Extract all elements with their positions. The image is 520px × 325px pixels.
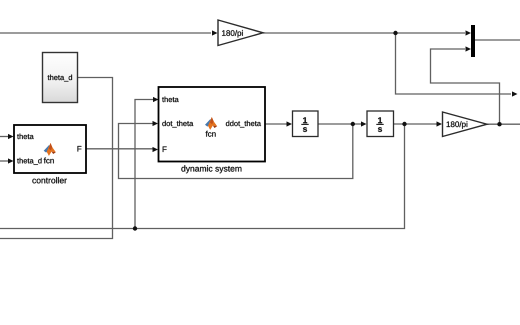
pin label theta	[17, 134, 34, 140]
arrow into dynamic system F	[153, 147, 159, 152]
wire	[0, 33, 520, 239]
arrow into bottom gain	[437, 121, 443, 126]
gain G2 180/pi bottom	[443, 112, 488, 137]
wire W1 input to top gain	[0, 32, 211, 34]
label fcn	[44, 158, 54, 164]
pin label dot_theta	[162, 121, 193, 128]
label fcn	[206, 131, 216, 137]
mux M1	[471, 25, 475, 57]
arrow into mux in2	[466, 46, 472, 51]
pin label theta	[162, 97, 179, 103]
arrow into dynamic system theta	[153, 97, 159, 102]
controller block U1	[14, 125, 86, 173]
wire W11 controller theta input	[0, 136, 8, 138]
arrow into controller theta_d	[8, 158, 14, 163]
node junction dots	[133, 31, 502, 231]
integrator U3 1/s	[293, 111, 319, 137]
arrow into dynamic system dot_theta	[153, 121, 159, 126]
dynamic system block U2	[159, 87, 266, 162]
wire W4 mux output	[475, 39, 520, 41]
label controller	[32, 177, 66, 183]
fraction bar	[301, 123, 308, 125]
node J2 integrator1 output	[351, 122, 355, 126]
wire W8 dynamic system out to integrator1	[265, 123, 287, 125]
arrow at right edge y94	[512, 91, 518, 96]
arrowheads	[8, 30, 518, 163]
value label theta_d	[48, 75, 72, 82]
wire W6 integrator2 out to bottom gain, branch down-left	[394, 123, 437, 125]
value label 180/pi	[222, 30, 243, 38]
value s	[378, 127, 382, 132]
wire W5 bottom gain output and feedback to mux in2	[487, 123, 520, 125]
node J4 bottom gain output	[497, 122, 501, 126]
matlab logo dynamic system	[205, 117, 217, 130]
arrow into top gain	[212, 30, 218, 35]
wire W12 controller theta_d input	[0, 160, 8, 162]
arrow into integrator2	[361, 121, 367, 126]
label dynamic system	[181, 165, 241, 173]
pin label F	[78, 146, 82, 152]
matlab logo controller	[44, 143, 56, 156]
value 1	[303, 117, 307, 123]
wire theta tap up to dynamic system	[135, 100, 153, 229]
node J5 theta tap	[133, 226, 137, 230]
wire W9 controller F to dynamic system F	[86, 148, 153, 150]
node J3 integrator2 output	[402, 122, 406, 126]
pin label ddot_theta	[226, 121, 261, 128]
wire W10 theta_d block out, down and exit left	[0, 78, 113, 239]
wire W7 integrator1 out to integrator2, feedback to dot_theta	[318, 123, 361, 125]
value s	[303, 127, 307, 132]
integrator U4 1/s	[367, 111, 394, 137]
theta_d source block	[43, 53, 78, 103]
wire W2 top gain to mux in1	[263, 32, 465, 34]
arrow into controller theta	[8, 134, 14, 139]
pin label theta_d	[17, 158, 41, 165]
value 1	[378, 117, 382, 123]
pin label F	[163, 147, 167, 153]
arrow into integrator1	[287, 121, 293, 126]
arrow into mux in1	[466, 30, 472, 35]
wire W3 branch down to right arrow	[396, 33, 512, 94]
value label 180/pi	[447, 121, 468, 129]
fraction bar	[376, 123, 383, 125]
node J1 on W2	[393, 31, 397, 35]
gain G1 180/pi top	[218, 20, 263, 46]
